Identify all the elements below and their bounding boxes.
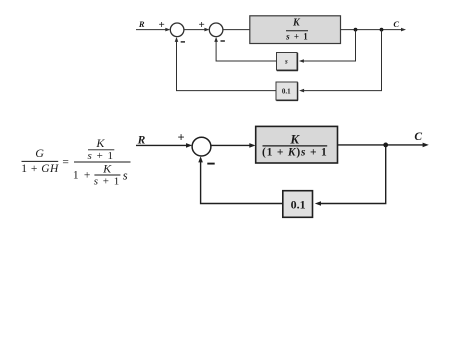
summing junction 2 (209, 23, 223, 37)
junction dot 2 (outer loop takeoff) (380, 28, 384, 32)
minus sign at summing junction 1 (181, 41, 185, 43)
svg-text:C: C (414, 131, 422, 143)
svg-text:+: + (159, 19, 165, 31)
block K/((1+K)s+1) (256, 126, 338, 163)
wire R to summing junction 1 (136, 28, 170, 32)
svg-text:K: K (292, 18, 301, 29)
svg-text:K: K (95, 136, 105, 150)
svg-text:0.1: 0.1 (282, 88, 291, 96)
svg-text:s: s (123, 169, 128, 183)
wire block to output node C (341, 28, 407, 32)
summing junction 1 (170, 23, 184, 37)
wire summing junction 2 to block K/(s+1) (223, 29, 250, 31)
wire block 0.1 to summing junction 1 (up arrow) (175, 37, 276, 91)
svg-text:C: C (393, 19, 399, 29)
minus sign at summing junction (bottom) (207, 163, 214, 165)
wire inner feedback: dot 1 down and left to block s (299, 30, 356, 63)
equation G/(1+GH) = [K/(s+1)] / [1 + K/(s+1) s] (21, 136, 130, 187)
wire block s to summing junction 2 (up arrow) (214, 37, 276, 61)
block 0.1 (top diagram) (276, 82, 298, 101)
minus sign at summing junction 2 (221, 40, 225, 42)
wire block 0.1 to summing junction (bottom, up arrow) (198, 156, 282, 203)
svg-text:1 +: 1 + (73, 170, 92, 182)
svg-text:R: R (138, 19, 145, 29)
block s (top diagram) (277, 53, 298, 71)
svg-text:K: K (289, 132, 300, 147)
svg-text:(1 + K)s + 1: (1 + K)s + 1 (262, 146, 328, 158)
block K/(s+1) (250, 16, 341, 44)
svg-text:s + 1: s + 1 (94, 175, 121, 187)
svg-text:G: G (35, 146, 44, 160)
wire summing junction 1 to summing junction 2 (184, 28, 210, 32)
svg-text:s: s (284, 58, 288, 66)
svg-text:0.1: 0.1 (291, 198, 306, 212)
junction dot (bottom diagram takeoff) (383, 143, 388, 148)
svg-text:s + 1: s + 1 (285, 31, 309, 41)
wire outer feedback: dot 2 down and left to block 0.1 (299, 30, 381, 93)
svg-text:+: + (177, 131, 184, 145)
svg-text:s + 1: s + 1 (88, 150, 115, 162)
svg-text:=: = (62, 156, 69, 168)
svg-text:+: + (199, 19, 205, 31)
block 0.1 (bottom diagram) (283, 191, 313, 218)
svg-text:K: K (102, 162, 112, 176)
wire summing junction to block (bottom) (211, 143, 256, 148)
junction dot 1 (inner loop takeoff) (354, 28, 358, 32)
wire feedback: dot down and left to block 0.1 (bottom) (315, 145, 386, 206)
wire R to summing junction (bottom) (136, 143, 192, 148)
summing junction (bottom diagram) (192, 137, 211, 156)
wire block to output node C (bottom) (338, 143, 429, 148)
svg-text:1 + GH: 1 + GH (21, 163, 59, 175)
